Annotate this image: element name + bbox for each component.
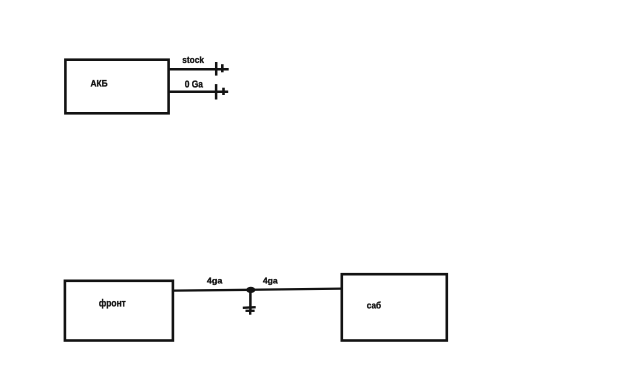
wire фронт to junction [173,289,251,292]
wire stock [168,68,229,71]
svg-text:stock: stock [182,55,204,66]
ground stem [249,290,252,311]
junction node [246,287,255,293]
svg-text:0 Ga: 0 Ga [185,80,204,91]
fuse F1 long plate [215,62,218,76]
svg-text:фронт: фронт [99,298,126,310]
wire 0 Ga [168,91,228,94]
box АКБ (battery) [65,60,168,114]
fuse F1 short plate [221,64,224,72]
svg-text:4ga: 4ga [207,275,223,285]
svg-text:саб: саб [367,300,382,310]
ground bar 1 [243,306,256,309]
fuse F2 long plate [215,84,218,99]
box саб (subwoofer) [342,274,447,340]
ground tail [249,311,251,315]
box фронт (front speakers) [65,281,173,341]
svg-text:4ga: 4ga [263,276,278,286]
ground bar 2 [246,310,255,312]
fuse F2 short plate [222,88,225,95]
wire junction to саб [251,289,342,290]
svg-text:АКБ: АКБ [91,79,108,89]
